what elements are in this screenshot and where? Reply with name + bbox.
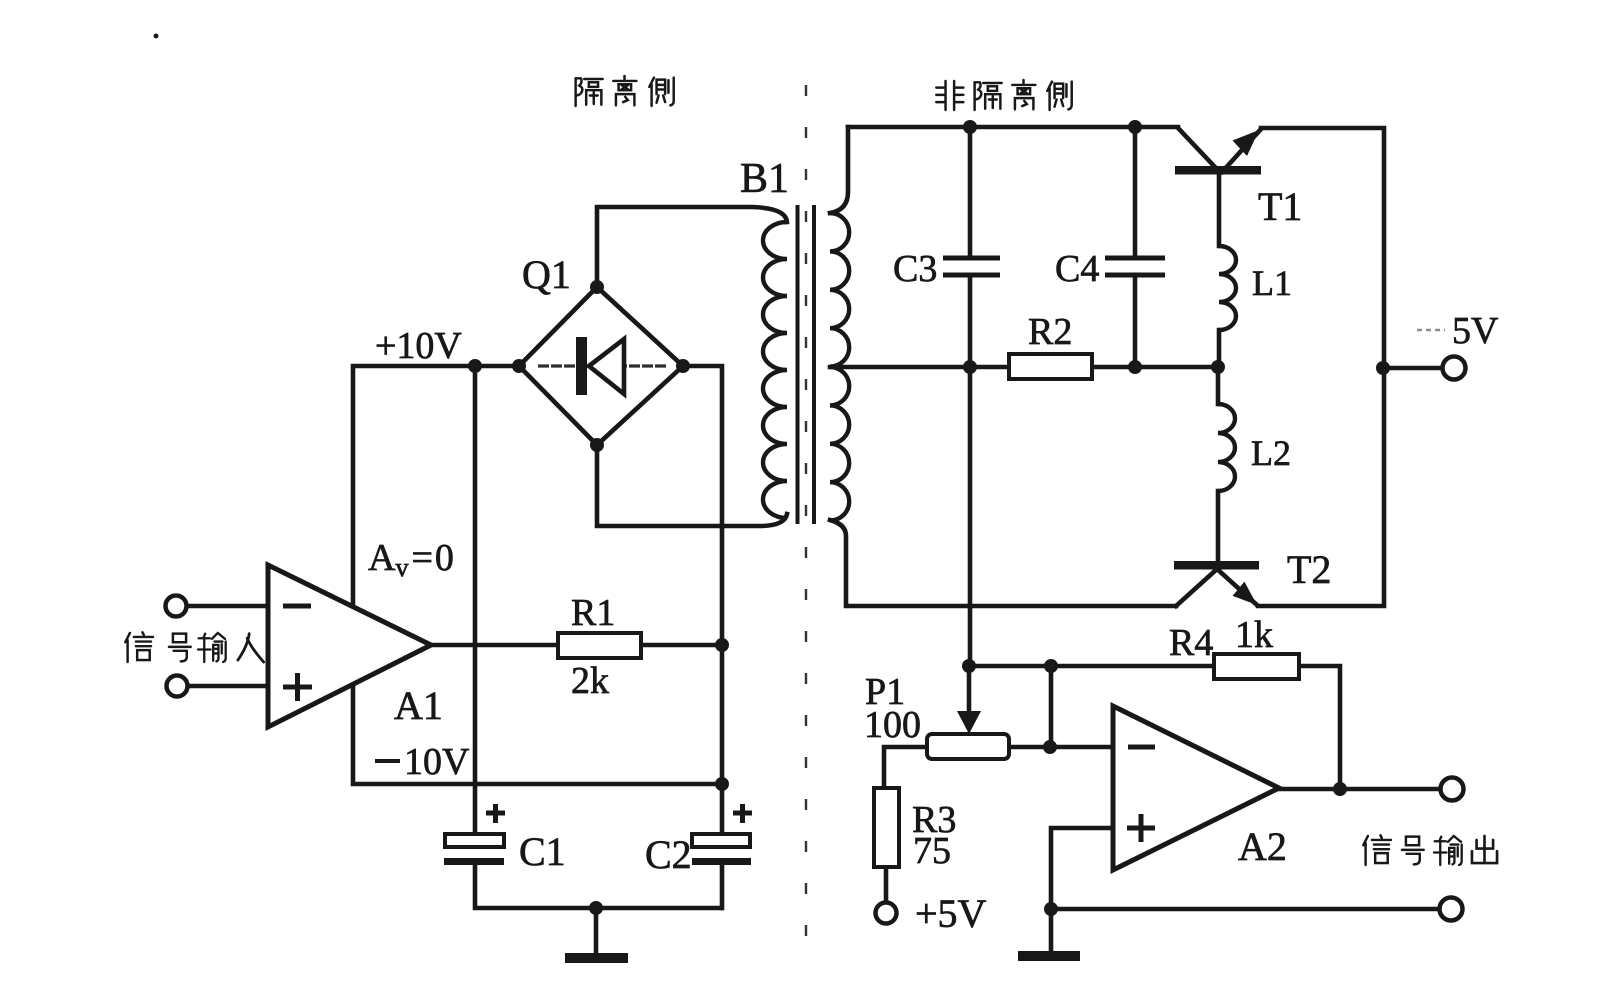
svg-text:+5V: +5V bbox=[915, 891, 987, 936]
svg-text:C3: C3 bbox=[893, 248, 937, 290]
svg-text:2k: 2k bbox=[571, 660, 609, 702]
svg-text:C1: C1 bbox=[519, 829, 566, 874]
svg-text:+10V: +10V bbox=[375, 325, 462, 367]
svg-text:75: 75 bbox=[913, 830, 951, 872]
svg-text:T1: T1 bbox=[1258, 184, 1302, 229]
svg-text:L2: L2 bbox=[1251, 433, 1291, 473]
svg-text:Av=0: Av=0 bbox=[368, 537, 454, 582]
svg-text:T2: T2 bbox=[1287, 547, 1331, 592]
svg-text:A2: A2 bbox=[1238, 824, 1287, 869]
svg-text:5V: 5V bbox=[1452, 310, 1499, 352]
svg-text:10V: 10V bbox=[404, 741, 470, 783]
svg-text:Q1: Q1 bbox=[522, 252, 571, 297]
svg-text:L1: L1 bbox=[1252, 263, 1292, 303]
svg-text:C4: C4 bbox=[1055, 248, 1099, 290]
svg-text:C2: C2 bbox=[645, 832, 692, 877]
svg-text:B1: B1 bbox=[740, 156, 789, 202]
svg-text:R4: R4 bbox=[1169, 622, 1213, 664]
svg-text:1k: 1k bbox=[1235, 614, 1273, 656]
svg-text:100: 100 bbox=[864, 704, 921, 746]
svg-text:A1: A1 bbox=[394, 683, 443, 728]
svg-text:R2: R2 bbox=[1028, 311, 1072, 353]
svg-text:R1: R1 bbox=[571, 592, 615, 634]
